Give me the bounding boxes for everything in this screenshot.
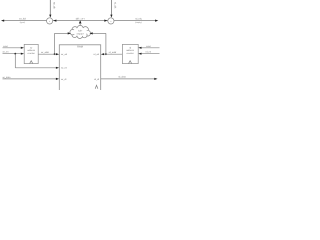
wire wr_en down	[14, 54, 16, 68]
wire wr addr counter to RAM	[38, 53, 57, 55]
svg-text:RAM: RAM	[77, 46, 83, 49]
wire wr pointer to cloud (vertical)	[54, 33, 56, 54]
junction dot wr pointer	[54, 53, 56, 55]
wire empty flag to right edge	[114, 20, 157, 22]
svg-text:wr_data: wr_data	[3, 76, 12, 79]
svg-text:reset: reset	[3, 45, 8, 48]
arrow empty out right	[155, 20, 158, 22]
arrow wr pointer into cloud	[68, 32, 71, 34]
svg-text:(empty): (empty)	[135, 21, 142, 24]
svg-text:wr_en: wr_en	[3, 51, 10, 54]
wire diff bus between synchronizers	[53, 20, 108, 22]
wire rd addr counter to RAM	[103, 53, 122, 55]
wire rd_clk vertical	[110, 0, 112, 15]
wire wr_clk vertical	[49, 0, 51, 15]
cloud interior mask	[73, 28, 87, 36]
block RAM	[59, 45, 100, 92]
arrow wr_en into RAM	[56, 67, 59, 69]
svg-text:rd_addr: rd_addr	[109, 51, 117, 54]
wire comparator to diff bus	[79, 23, 81, 27]
arrow full out left	[1, 20, 4, 22]
svg-text:s: s	[110, 20, 111, 23]
svg-text:(sync): (sync)	[20, 21, 26, 24]
block rd address counter	[122, 44, 138, 63]
arrow rd_clk into synchronizer	[110, 15, 112, 18]
wire reset left	[3, 47, 23, 49]
arrow into left synchronizer	[53, 20, 56, 22]
svg-text:diff = w-r: diff = w-r	[76, 17, 85, 20]
wire wr_en to RAM	[15, 67, 57, 69]
arrow wr_en into wr counter	[21, 53, 24, 55]
arrow rd_data out right	[154, 78, 157, 80]
svg-text:reset: reset	[146, 45, 151, 48]
wire wr_en left	[3, 53, 23, 55]
comparator cloud	[70, 25, 91, 38]
wire wr_data	[3, 78, 58, 80]
wire wr pointer to cloud (horizontal)	[55, 32, 69, 34]
svg-text:rd_dt: rd_dt	[94, 78, 99, 81]
synchronizer circle right	[108, 18, 114, 24]
svg-text:wr: wr	[30, 46, 33, 49]
wire rd_data out	[101, 78, 156, 80]
clock triangle RAM	[95, 85, 98, 89]
wire reset right	[140, 47, 159, 49]
svg-text:counter: counter	[126, 52, 134, 55]
junction arrow up from comparator	[79, 20, 82, 23]
svg-text:rd_en: rd_en	[146, 51, 152, 54]
arrow wr addr into RAM	[56, 53, 59, 55]
clock triangle wr counter	[30, 61, 33, 64]
junction dot wr_en	[14, 53, 16, 55]
arrow rd addr into RAM	[101, 53, 104, 55]
arrow reset into wr counter	[21, 47, 24, 49]
svg-text:wr_dt: wr_dt	[61, 78, 67, 81]
svg-text:wr_ad: wr_ad	[61, 53, 68, 56]
svg-text:wr_addr: wr_addr	[41, 51, 49, 54]
svg-text:rd_ad: rd_ad	[93, 53, 99, 56]
wire rd_en right	[140, 53, 159, 55]
wire rd pointer to cloud (vertical)	[105, 33, 107, 54]
svg-text:counter: counter	[28, 52, 36, 55]
svg-text:address: address	[126, 49, 135, 52]
block wr address counter	[24, 44, 38, 63]
arrow reset into rd counter	[138, 47, 141, 49]
svg-text:s: s	[49, 20, 50, 23]
svg-text:rd_clk: rd_clk	[114, 2, 117, 9]
svg-text:wr_clk: wr_clk	[53, 2, 56, 10]
arrow wr_clk into synchronizer	[49, 15, 51, 18]
svg-text:rd_rdy: rd_rdy	[135, 18, 142, 21]
junction dot rd pointer	[105, 53, 107, 55]
clock triangle rd counter	[129, 61, 132, 64]
svg-text:rd_data: rd_data	[118, 76, 126, 79]
wire full flag to left edge	[3, 20, 47, 22]
wire rd pointer to cloud (horizontal)	[92, 32, 106, 34]
svg-text:empty?: empty?	[77, 32, 85, 35]
svg-text:address: address	[27, 49, 36, 52]
arrow into right synchronizer	[104, 20, 107, 22]
synchronizer circle left	[47, 18, 53, 24]
svg-text:wr_en: wr_en	[61, 67, 68, 70]
svg-text:wr_full: wr_full	[19, 18, 26, 21]
arrow rd_en into rd counter	[138, 53, 141, 55]
arrow rd pointer into cloud	[90, 32, 93, 34]
arrow wr_data into RAM	[56, 78, 59, 80]
